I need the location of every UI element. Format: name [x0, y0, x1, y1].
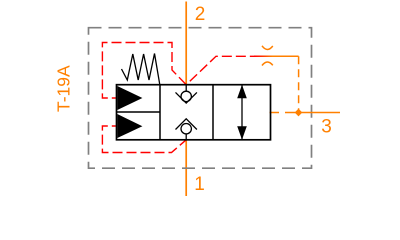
body divider left: [159, 85, 161, 140]
pilot triangle upper: [117, 86, 142, 110]
check valve upper seat: [176, 92, 197, 103]
wire port1 (orange vertical below body): [185, 140, 187, 196]
pilot line lower-left (red dashed): [102, 126, 186, 153]
junction node: [295, 109, 303, 117]
valve body: [117, 85, 271, 140]
svg-text:3: 3: [321, 117, 332, 138]
check valve lower ball: [181, 124, 191, 134]
spring: [122, 54, 160, 85]
svg-text:T-19A: T-19A: [54, 65, 74, 112]
check valve lower stem: [185, 134, 187, 140]
pilot drop line (orange dashed): [298, 56, 300, 112]
pilot cell divider: [117, 111, 161, 113]
wire port2 (orange vertical above body): [185, 2, 187, 85]
check valve upper ball: [181, 91, 191, 101]
valve envelope (gray dashed boundary): [89, 28, 312, 169]
spool arrow shaft: [241, 85, 243, 140]
check valve lower seat: [176, 119, 197, 130]
orifice: [262, 46, 273, 66]
wire port3 (orange): [285, 112, 340, 114]
svg-text:1: 1: [194, 174, 205, 195]
spool arrow head down: [237, 126, 247, 140]
pilot line upper-right (red dashed): [186, 56, 254, 84]
pilot line through orifice (solid, red to orange): [254, 55, 299, 57]
pilot triangle lower: [117, 114, 142, 138]
drain stub (orange dashed): [270, 112, 286, 114]
svg-text:2: 2: [195, 4, 206, 25]
check valve upper stem: [185, 85, 187, 92]
spool arrow head up: [237, 85, 247, 99]
pilot line upper-left (red dashed): [102, 43, 186, 99]
body divider right: [212, 85, 214, 140]
